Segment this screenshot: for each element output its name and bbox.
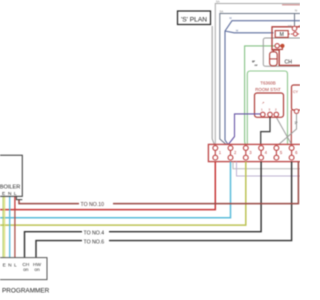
- svg-text:L: L: [14, 263, 17, 269]
- svg-text:'S' PLAN: 'S' PLAN: [181, 16, 207, 23]
- svg-text:1: 1: [261, 108, 263, 112]
- svg-text:N: N: [295, 9, 297, 13]
- svg-text:5A: 5A: [216, 0, 220, 4]
- svg-text:TO NO.4: TO NO.4: [84, 230, 105, 236]
- svg-text:bl: bl: [230, 16, 233, 20]
- svg-text:on: on: [34, 268, 40, 273]
- svg-text:N: N: [8, 263, 12, 269]
- svg-text:E: E: [3, 263, 6, 269]
- svg-text:BOILER: BOILER: [0, 185, 20, 191]
- svg-text:PROGRAMMER: PROGRAMMER: [2, 288, 50, 295]
- svg-text:M: M: [280, 32, 284, 38]
- svg-text:5A: 5A: [220, 9, 224, 13]
- svg-text:CY: CY: [293, 90, 299, 94]
- svg-text:L: L: [14, 191, 17, 197]
- svg-text:2: 2: [275, 108, 277, 112]
- svg-text:N: N: [8, 191, 12, 197]
- svg-text:3: 3: [269, 108, 271, 112]
- svg-text:1*: 1*: [295, 121, 299, 125]
- svg-text:ROOM STAT: ROOM STAT: [255, 87, 281, 92]
- svg-text:T6360B: T6360B: [260, 81, 275, 86]
- svg-text:M1: M1: [288, 24, 292, 28]
- svg-text:bl: bl: [236, 29, 239, 33]
- svg-text:TO NO.10: TO NO.10: [81, 202, 105, 208]
- svg-text:↗: ↗: [262, 101, 265, 105]
- svg-text:CH: CH: [285, 59, 293, 65]
- svg-text:TO NO.6: TO NO.6: [84, 239, 105, 245]
- svg-text:on: on: [23, 268, 29, 273]
- svg-text:E: E: [2, 191, 5, 197]
- svg-text:or: or: [255, 63, 259, 67]
